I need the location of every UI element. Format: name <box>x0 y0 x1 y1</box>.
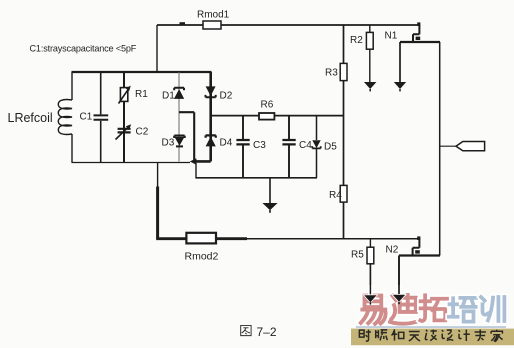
wire D2/D4 branch (thick) <box>194 72 211 161</box>
wire N2 source to ground <box>398 256 400 295</box>
logo char 拓 <box>420 295 447 321</box>
resistor R4 <box>340 185 347 202</box>
wire tank bottom rail <box>72 162 191 164</box>
wire R2 column <box>369 25 371 82</box>
wire vertical x157 top rail to tank top <box>156 25 158 72</box>
ground below R5 (over watermark) <box>364 295 376 304</box>
junction tick left of Rmod1 <box>180 22 186 25</box>
wire Rmod2 rail thick part <box>156 237 247 240</box>
svg-text:7–2: 7–2 <box>257 325 277 339</box>
wire junction down to filter box bottom rail <box>195 163 197 178</box>
logo char 易 <box>361 296 386 324</box>
svg-text:R2: R2 <box>350 35 363 46</box>
svg-text:D3: D3 <box>162 138 175 149</box>
ground below R2 <box>364 82 376 91</box>
wire filter bottom rail <box>195 177 317 179</box>
svg-text:R1: R1 <box>135 89 148 100</box>
svg-text:R4: R4 <box>329 190 342 201</box>
svg-text:C1: C1 <box>80 112 93 123</box>
ground below N2 (over watermark) <box>393 295 405 304</box>
resistor R2 <box>366 32 373 49</box>
svg-text:N1: N1 <box>385 31 398 42</box>
inductor LRefcoil <box>58 72 72 163</box>
capacitor C2 (trimmer) <box>116 124 132 139</box>
wire tank top rail <box>72 71 212 73</box>
resistor R3 <box>340 63 347 80</box>
wire filter top rail with R6 <box>211 115 344 117</box>
resistor R5 <box>367 247 374 264</box>
logo char 培 <box>449 298 476 322</box>
svg-text:R5: R5 <box>351 250 364 261</box>
logo char 训 <box>481 297 504 321</box>
wire D1/D3 branch (thin) <box>178 72 180 162</box>
wire N2 source to ground (over watermark) <box>397 285 402 295</box>
diode D1 <box>174 88 184 99</box>
transistor N2 <box>399 236 440 255</box>
resistor Rmod1 <box>203 21 221 29</box>
svg-text:R3: R3 <box>325 68 338 79</box>
transistor N1 <box>400 22 440 42</box>
resistor Rmod2 <box>186 233 216 244</box>
wire R5 column <box>369 239 371 295</box>
diode D2 <box>206 86 216 97</box>
svg-text:D5: D5 <box>324 142 337 153</box>
svg-text:N2: N2 <box>386 245 399 256</box>
node junction arrow at tank bottom right <box>190 158 197 165</box>
svg-text:D1: D1 <box>162 91 175 102</box>
svg-text:LRefcoil: LRefcoil <box>8 111 53 125</box>
ground below R5 <box>364 295 376 304</box>
ground below N1 <box>394 82 406 91</box>
diode D4 <box>206 135 216 146</box>
wire R1/C2 branch <box>123 72 125 163</box>
wire right rail N1 drain to N2 drain <box>439 42 441 256</box>
svg-text:Rmod2: Rmod2 <box>185 251 219 263</box>
wire D1/D3 midpoint to junction <box>179 112 194 162</box>
wire left drop from tank bottom to Rmod2 rail <box>157 163 159 187</box>
svg-text:C3: C3 <box>253 140 266 151</box>
watermark logo 易迪拓培训 <box>361 295 505 324</box>
wire output stub <box>440 145 456 147</box>
logo char 迪 <box>390 295 418 324</box>
watermark tagline bar <box>351 329 514 346</box>
svg-text:C1:strayscapacitance <5pF: C1:strayscapacitance <5pF <box>30 44 137 54</box>
logo underline <box>356 326 506 328</box>
svg-text:Rmod1: Rmod1 <box>197 10 230 21</box>
diode D5 <box>312 116 320 178</box>
capacitor C4 <box>282 116 295 178</box>
resistor R6 <box>259 113 274 120</box>
diode D3 <box>174 136 184 147</box>
connector output lug <box>456 142 485 151</box>
capacitor C3 <box>236 116 249 178</box>
svg-text:D4: D4 <box>220 138 233 149</box>
resistor R1 (trimmer) <box>119 86 131 104</box>
svg-text:C2: C2 <box>136 127 149 138</box>
wire R3/R4 column <box>343 25 345 239</box>
capacitor C1 <box>94 72 109 163</box>
wire R5 to ground (over watermark) <box>368 285 373 295</box>
wire bottom rail thin part to N2 gate <box>247 238 420 240</box>
svg-text:R6: R6 <box>261 100 274 111</box>
wire top rail from node at x157 to N1 gate <box>157 24 420 26</box>
ground below N2 <box>393 295 405 304</box>
wire N1 source to ground <box>399 42 401 82</box>
tagline 射频和天线设计专家 <box>359 329 502 341</box>
svg-text:D2: D2 <box>220 91 233 102</box>
caption 图 7-2 glyph <box>241 325 251 335</box>
ground below filter box <box>262 178 277 213</box>
svg-text:C4: C4 <box>299 140 312 151</box>
